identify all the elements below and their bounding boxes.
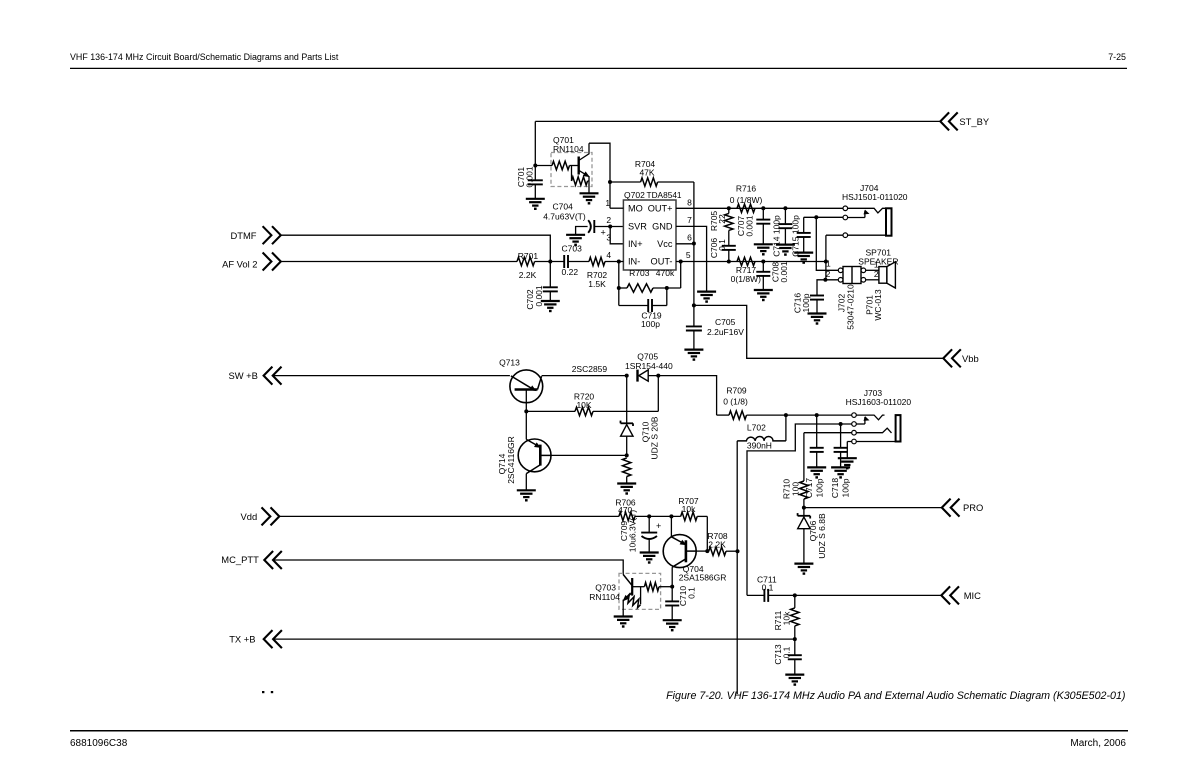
svg-text:R709: R709 — [726, 386, 747, 396]
svg-text:RN1104: RN1104 — [553, 144, 584, 154]
svg-text:7-25: 7-25 — [1108, 52, 1126, 62]
svg-text:ST_BY: ST_BY — [959, 116, 989, 127]
resistor R709 0 (1/8) — [717, 414, 729, 416]
svg-text:1: 1 — [605, 198, 610, 208]
capacitor C708 0.001 — [762, 262, 764, 272]
svg-text:22: 22 — [717, 214, 727, 224]
svg-text:TDA8541: TDA8541 — [647, 190, 682, 200]
capacitor C711 0.1 — [747, 594, 764, 596]
svg-text:2.2uF16V: 2.2uF16V — [707, 327, 744, 337]
wire J703 tip contact — [854, 415, 885, 420]
ground C702 — [541, 300, 560, 302]
svg-text:0 (1/8): 0 (1/8) — [723, 396, 748, 406]
capacitor C718 100p — [840, 424, 842, 448]
wire MO pin — [610, 207, 623, 209]
wire IN- to R703 — [618, 262, 620, 306]
node C714 top — [783, 206, 787, 210]
footer rule — [70, 730, 1128, 732]
ground C705 — [684, 349, 703, 351]
resistor below Q710 — [623, 458, 631, 477]
svg-text:Q713: Q713 — [499, 358, 520, 368]
node C717 top — [815, 413, 819, 417]
node PRO — [802, 506, 806, 510]
svg-text:10k: 10k — [782, 611, 792, 625]
capacitor C706 0.1 — [722, 245, 736, 247]
capacitor C702 0.001 — [549, 262, 551, 288]
wire OUT+ rail — [676, 207, 843, 209]
capacitor C719 100p — [619, 305, 648, 307]
svg-text:Vbb: Vbb — [962, 353, 979, 364]
node MO/R704 — [608, 180, 612, 184]
node diode left — [625, 374, 629, 378]
op-amp U Q702 TDA8541 — [623, 200, 676, 270]
svg-text:53047-0210: 53047-0210 — [846, 284, 856, 330]
node R711 top — [793, 593, 797, 597]
resistor R707 10k — [681, 512, 698, 520]
resistor R711 10k — [794, 595, 796, 608]
svg-text:OUT-: OUT- — [651, 257, 673, 267]
transistor Q704 2SA1586GR — [663, 535, 696, 568]
resistor R710 100 — [803, 433, 805, 481]
node DTMF/AF junction — [548, 260, 552, 264]
wire AF Vol 2 to R701 — [281, 261, 517, 263]
resistor R716 0 (1/8W) — [737, 204, 755, 212]
svg-text:0.1: 0.1 — [687, 587, 697, 599]
svg-text:R703: R703 — [629, 268, 650, 278]
svg-text:C718: C718 — [830, 478, 840, 499]
svg-text:10K: 10K — [576, 400, 591, 410]
wire PRO — [804, 507, 942, 509]
ground Q714 — [517, 489, 536, 491]
J704 contact circles — [843, 206, 848, 211]
svg-text:DTMF: DTMF — [230, 230, 256, 241]
svg-text:UDZ S 20B: UDZ S 20B — [650, 416, 660, 459]
ground C718 — [831, 466, 850, 468]
svg-text:Vcc: Vcc — [657, 239, 673, 249]
svg-text:100p: 100p — [815, 478, 825, 497]
node Q704 collector — [670, 585, 674, 589]
svg-text:100p: 100p — [641, 319, 660, 329]
node ring/OUT- branch — [814, 215, 818, 219]
zener Q710 UDZ S 20B — [626, 376, 628, 425]
ground C717 — [807, 466, 826, 468]
svg-text:MO: MO — [628, 203, 643, 213]
zener Q706 UDZ S 6.8B — [803, 508, 805, 517]
node C707 top — [761, 206, 765, 210]
svg-text:RN1104: RN1104 — [589, 592, 620, 602]
node Q713 base — [524, 409, 528, 413]
wire J703 ring2 — [804, 428, 892, 433]
svg-text:2: 2 — [874, 269, 879, 279]
svg-text:C704: C704 — [553, 202, 574, 212]
resistor R717 0(1/8W) — [737, 257, 755, 265]
ground Q703 — [614, 615, 633, 617]
wire Vbb — [694, 305, 943, 358]
port PRO — [942, 499, 951, 517]
ground C707 — [754, 243, 773, 245]
svg-text:0.1: 0.1 — [717, 239, 727, 251]
capacitor C703 0.22 — [563, 255, 565, 268]
wire J703 sleeve — [847, 441, 900, 443]
svg-text:2: 2 — [606, 215, 611, 225]
ground C714 — [776, 244, 795, 246]
J704 plug body — [886, 208, 892, 235]
wire SW +B to Q713 — [273, 375, 510, 377]
svg-text:390nH: 390nH — [747, 440, 772, 450]
node R703 left — [617, 286, 621, 290]
connector J702 53047-0210 — [843, 267, 861, 284]
inductor L702 390nH — [785, 415, 787, 441]
svg-text:47K: 47K — [639, 167, 654, 177]
node R703/C719 right — [665, 286, 669, 290]
capacitor C714 100p — [784, 208, 786, 224]
svg-text:MC_PTT: MC_PTT — [221, 554, 259, 565]
wire sleeve to J702 pin2 — [825, 235, 827, 280]
svg-text:TX +B: TX +B — [229, 634, 255, 645]
wire J702 to speaker — [866, 269, 879, 271]
port ST_BY — [940, 112, 949, 130]
svg-text:MIC: MIC — [964, 590, 981, 601]
transistor Q701 RN1104 — [551, 153, 592, 187]
ground C704 — [566, 234, 585, 236]
svg-text:4.7u63V(T): 4.7u63V(T) — [543, 212, 586, 222]
svg-text:C715 100p: C715 100p — [791, 215, 801, 257]
resistor R705 22 — [728, 208, 730, 213]
svg-text:8: 8 — [687, 198, 692, 208]
svg-text:2SC2859: 2SC2859 — [572, 364, 608, 374]
transistor Q714 2SC4116GR — [518, 439, 551, 472]
svg-text:100: 100 — [791, 482, 801, 496]
J703 contact circles — [852, 413, 857, 418]
wire Q701 collector to MO — [589, 143, 610, 208]
svg-text:VHF 136-174 MHz Circuit Board/: VHF 136-174 MHz Circuit Board/Schematic … — [70, 52, 339, 62]
wire R720 up — [657, 376, 659, 412]
svg-text:C714 100p: C714 100p — [772, 215, 782, 257]
svg-text:SVR: SVR — [628, 222, 647, 232]
capacitor C705 2.2uF16V — [686, 325, 702, 327]
ground C701 — [526, 198, 545, 200]
node C705 — [692, 303, 696, 307]
svg-text:0.1: 0.1 — [762, 582, 774, 592]
node OUT-/sleeve — [824, 260, 828, 264]
node Q704 base — [705, 549, 709, 553]
svg-text:IN-: IN- — [628, 257, 640, 267]
resistor R702 1.5K — [589, 257, 605, 265]
ground C716 — [808, 312, 827, 314]
svg-text:+: + — [601, 228, 606, 238]
capacitor C709 10u6.3V(T) — [648, 516, 650, 532]
ground C709 — [640, 551, 659, 553]
capacitor C710 0.1 — [671, 587, 673, 602]
wire Vdd to R706 — [279, 515, 619, 517]
svg-text:3: 3 — [606, 233, 611, 243]
svg-text:C717: C717 — [804, 478, 814, 499]
wire DTMF — [281, 235, 551, 261]
svg-text:UDZ S 6.8B: UDZ S 6.8B — [817, 513, 827, 559]
node C708 top — [761, 260, 765, 264]
svg-text:L702: L702 — [747, 423, 766, 433]
wire J703 ring1 branch — [747, 424, 852, 595]
node diode right — [656, 374, 660, 378]
ground Q706 — [794, 562, 813, 564]
port Vbb — [943, 349, 952, 367]
stray marks — [262, 691, 264, 693]
node C709 — [647, 514, 651, 518]
wire ST_BY drop to C701 — [534, 121, 536, 180]
wire Q713 collector — [542, 375, 627, 377]
capacitor C713 0.1 — [794, 639, 796, 655]
node Q704 emitter — [669, 514, 673, 518]
node zener bottom — [625, 453, 629, 457]
svg-text:0.001: 0.001 — [745, 215, 755, 237]
svg-text:0.22: 0.22 — [562, 267, 579, 277]
wire R707 down — [706, 516, 708, 551]
ground C715 — [794, 252, 813, 254]
ground C710 — [663, 619, 682, 621]
svg-text:100p: 100p — [841, 478, 851, 497]
header rule — [70, 67, 1127, 69]
J703 ring1 contact — [854, 423, 865, 425]
svg-text:OUT+: OUT+ — [648, 204, 673, 214]
node R705 top — [727, 206, 731, 210]
svg-text:R701: R701 — [518, 251, 539, 261]
svg-text:SW +B: SW +B — [228, 370, 257, 381]
capacitor C716 100p — [817, 280, 838, 296]
svg-text:4: 4 — [606, 250, 611, 260]
svg-text:470k: 470k — [656, 268, 675, 278]
wire SVR to IN+ — [610, 227, 623, 244]
wire Vcc pin — [676, 243, 694, 245]
svg-text:6881096C38: 6881096C38 — [70, 738, 128, 749]
svg-text:HSJ1501-011020: HSJ1501-011020 — [842, 192, 908, 202]
node C718 top — [839, 422, 843, 426]
svg-text:PRO: PRO — [963, 502, 983, 513]
ground Q701 — [580, 192, 599, 194]
svg-text:10k: 10k — [682, 504, 696, 514]
transistor Q703 RN1104 — [619, 573, 661, 609]
wire GND pin — [676, 226, 707, 291]
ground C708 — [754, 289, 773, 291]
wire Vcc to Vbb — [693, 244, 695, 327]
svg-text:6: 6 — [687, 233, 692, 243]
svg-text:1SR154-440: 1SR154-440 — [625, 361, 673, 371]
wire ring to J702 pin1 — [816, 217, 838, 270]
wire MIC — [768, 594, 941, 596]
node R708 right — [736, 549, 740, 553]
resistor R706 470 — [619, 512, 635, 520]
wire Q704 base — [696, 550, 707, 552]
wire L702 down — [736, 441, 738, 694]
svg-text:AF Vol 2: AF Vol 2 — [222, 258, 257, 269]
svg-text:7: 7 — [687, 215, 692, 225]
svg-text:2: 2 — [826, 269, 831, 279]
capacitor C715 100p — [803, 217, 805, 233]
wire C701 node to Q701 — [535, 165, 552, 167]
node OUT- — [679, 260, 683, 264]
svg-text:WC-013: WC-013 — [873, 289, 883, 320]
node C701 top — [533, 164, 537, 168]
svg-text:Vdd: Vdd — [241, 511, 258, 522]
wire ring J704 — [804, 216, 843, 218]
svg-text:1.5K: 1.5K — [588, 279, 606, 289]
resistor R701 2.2K — [517, 257, 535, 265]
wire J704 tip contact — [848, 208, 886, 213]
svg-text:R716: R716 — [736, 183, 757, 193]
svg-text:100p: 100p — [801, 293, 811, 312]
wire R703 to OUT- — [680, 262, 682, 289]
svg-text:C705: C705 — [715, 317, 736, 327]
wire Q714 collector to zener — [551, 454, 627, 456]
resistor R703 470k — [619, 287, 627, 289]
capacitor C717 100p — [816, 415, 818, 448]
wire TX +B — [273, 638, 795, 640]
wire sleeve to ground — [846, 442, 848, 459]
ground below Q710 — [617, 482, 636, 484]
wire R704 to Vcc — [693, 182, 695, 244]
svg-text:Figure 7-20. VHF 136-174 MHz A: Figure 7-20. VHF 136-174 MHz Audio PA an… — [666, 690, 1125, 702]
svg-text:10u6.3V(T): 10u6.3V(T) — [628, 510, 638, 553]
node TX+B/R711 — [793, 637, 797, 641]
svg-text:2SA1586GR: 2SA1586GR — [679, 573, 727, 583]
ground J703 — [838, 457, 857, 459]
svg-text:0.001: 0.001 — [534, 285, 544, 307]
svg-text:0.1: 0.1 — [782, 646, 792, 658]
node IN- — [617, 260, 621, 264]
svg-text:1: 1 — [826, 258, 831, 268]
svg-text:March, 2006: March, 2006 — [1070, 738, 1126, 749]
svg-text:IN+: IN+ — [628, 239, 643, 249]
svg-text:HSJ1603-011020: HSJ1603-011020 — [846, 397, 912, 407]
wire MC_PTT to Q703 — [273, 560, 623, 575]
ground IC GND — [697, 291, 716, 293]
svg-text:2.2K: 2.2K — [519, 270, 537, 280]
svg-text:+: + — [656, 521, 661, 531]
svg-text:0 (1/8W): 0 (1/8W) — [730, 195, 763, 205]
wire ST_BY bus — [535, 120, 940, 122]
svg-text:5: 5 — [686, 250, 691, 260]
svg-text:2.2K: 2.2K — [708, 539, 726, 549]
J704 ring contact — [845, 217, 865, 219]
svg-text:0.001: 0.001 — [525, 166, 535, 188]
svg-text:2SC4116GR: 2SC4116GR — [506, 436, 516, 484]
node Vcc — [692, 242, 696, 246]
svg-text:0.001: 0.001 — [779, 261, 789, 283]
svg-text:GND: GND — [652, 222, 673, 232]
capacitor C707 0.001 — [762, 208, 764, 219]
wire diode to R709 — [648, 376, 717, 416]
resistor R720 10K — [526, 410, 575, 412]
node L702 top — [784, 413, 788, 417]
svg-text:Q702: Q702 — [624, 190, 645, 200]
node SVR/IN+ — [608, 225, 612, 229]
J703 plug body — [896, 415, 901, 441]
node C706 bottom — [727, 260, 731, 264]
capacitor C701 — [528, 179, 543, 181]
resistor R704 47K — [610, 181, 641, 183]
resistor R708 2.2K — [709, 547, 726, 555]
svg-text:C703: C703 — [562, 243, 583, 253]
wire J704 sleeve — [826, 234, 886, 236]
wire OUT- rail — [676, 261, 826, 263]
ground C713 — [785, 673, 804, 675]
port MIC — [941, 586, 950, 604]
